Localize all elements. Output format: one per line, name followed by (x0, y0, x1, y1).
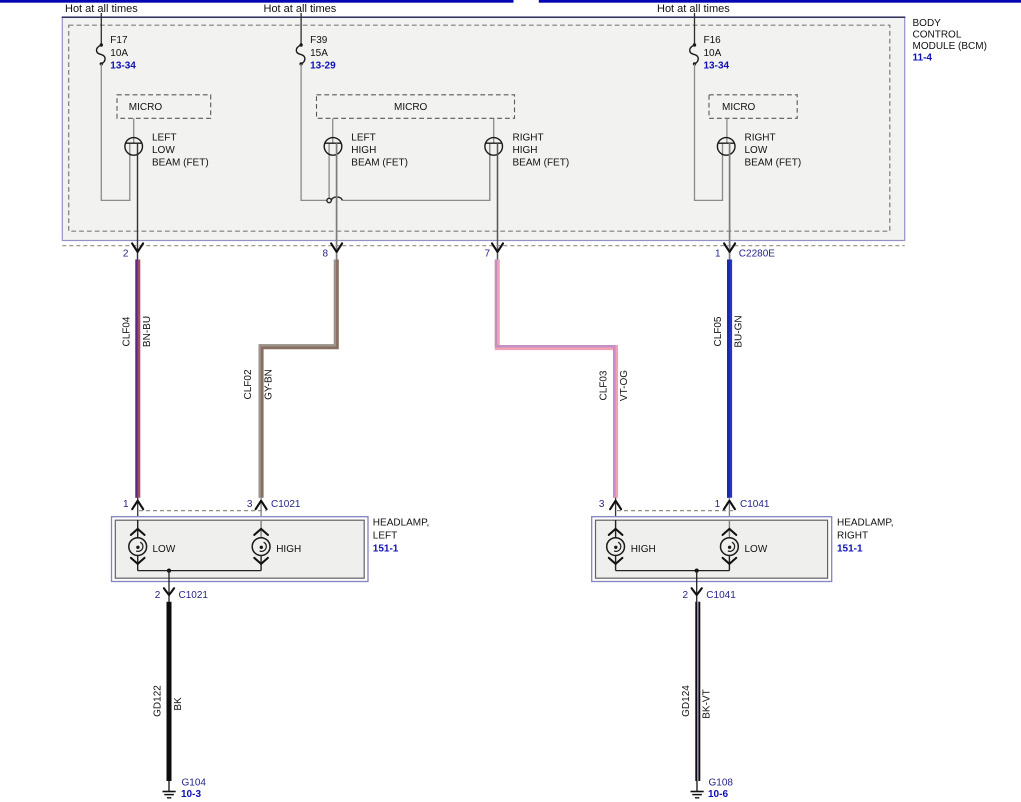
svg-text:2: 2 (155, 590, 161, 601)
wire CLF04 BN-BU (137, 260, 138, 498)
svg-text:MODULE (BCM): MODULE (BCM) (913, 41, 987, 52)
svg-text:C1041: C1041 (706, 590, 736, 601)
wire: drain of Q4 to pin 1 (729, 143, 731, 260)
fuse F39 (296, 43, 305, 65)
fuse F17 (97, 43, 106, 65)
wire: left headlamp common return (138, 570, 261, 572)
wire: gate of left low beam FET (133, 118, 135, 143)
svg-text:BK: BK (173, 697, 184, 711)
wire: F39 source bus (301, 64, 490, 201)
headlamp right labels (837, 517, 894, 554)
pin 3 arrow at right headlamp (599, 498, 621, 520)
pin 1 arrow at right headlamp with connector C1041 label (715, 498, 770, 520)
junction: left headlamp return node (167, 569, 171, 573)
svg-text:151-1: 151-1 (373, 544, 399, 555)
wire CLF03 labels (598, 370, 630, 401)
BCM module box (62, 17, 906, 241)
svg-text:HIGH: HIGH (351, 145, 376, 156)
FET Q4 labels (745, 133, 802, 169)
wire CLF05 BU-GN (728, 260, 729, 498)
connector C2280E dashed line (62, 245, 904, 247)
wire CLF04 labels (121, 316, 153, 347)
svg-text:GD124: GD124 (681, 685, 692, 717)
FET Q1 left low beam (125, 138, 143, 156)
ground G108 labels (708, 778, 733, 800)
svg-text:10-6: 10-6 (708, 789, 728, 800)
svg-text:MICRO: MICRO (394, 102, 428, 113)
MICRO box U1 (left) (117, 95, 211, 119)
ground G108 (691, 781, 704, 798)
BCM label text (913, 18, 987, 64)
svg-text:HEADLAMP,: HEADLAMP, (373, 517, 430, 528)
svg-text:LEFT: LEFT (351, 133, 375, 144)
svg-text:BEAM (FET): BEAM (FET) (351, 158, 408, 169)
headlamp left box (112, 517, 369, 582)
svg-text:BEAM (FET): BEAM (FET) (513, 158, 570, 169)
node: Hot at all times (right feed) (657, 3, 730, 15)
svg-text:HEADLAMP,: HEADLAMP, (837, 517, 894, 528)
bulb: right high beam (607, 520, 656, 571)
top header bar left segment (0, 0, 514, 3)
connector C1041 dashed line (617, 510, 734, 512)
connector C1021 dashed line (139, 510, 267, 512)
svg-text:CLF02: CLF02 (243, 369, 254, 399)
svg-text:MICRO: MICRO (722, 102, 756, 113)
bulb: left high beam (252, 520, 301, 571)
wire CLF05 labels (713, 315, 744, 347)
FET Q2 labels (351, 133, 408, 169)
wire: center feed from hot bus to fuse F39 (300, 13, 302, 45)
BCM inner dashed boundary (69, 25, 890, 231)
wire: F16 source run to right low beam FET (695, 64, 723, 201)
wire: right headlamp common return (616, 570, 730, 572)
FET Q4 right low beam (717, 138, 735, 156)
wire CLF02 labels (243, 369, 274, 400)
svg-text:3: 3 (599, 499, 605, 510)
wire: drain of Q3 to pin 7 (497, 143, 499, 260)
svg-text:151-1: 151-1 (837, 544, 863, 555)
wire: source leg of right high beam FET (489, 143, 491, 200)
svg-text:13-34: 13-34 (110, 61, 136, 72)
FET Q1 labels (152, 133, 209, 169)
svg-text:2: 2 (123, 248, 129, 259)
svg-text:HIGH: HIGH (513, 145, 538, 156)
svg-text:LOW: LOW (153, 544, 176, 555)
svg-text:F39: F39 (310, 35, 328, 46)
svg-text:G104: G104 (182, 778, 207, 789)
svg-text:RIGHT: RIGHT (837, 531, 868, 542)
headlamp right box (592, 517, 832, 582)
svg-text:3: 3 (247, 499, 253, 510)
svg-text:F17: F17 (110, 35, 128, 46)
svg-text:Hot at all times: Hot at all times (264, 3, 337, 15)
wire: drain of Q2 to pin 8 (336, 143, 338, 260)
svg-text:1: 1 (123, 499, 129, 510)
svg-text:C1041: C1041 (740, 499, 770, 510)
svg-text:RIGHT: RIGHT (513, 133, 544, 144)
svg-text:HIGH: HIGH (276, 544, 301, 555)
svg-text:BEAM (FET): BEAM (FET) (152, 158, 209, 169)
svg-text:G108: G108 (709, 778, 734, 789)
svg-text:LOW: LOW (745, 145, 768, 156)
wire: left headlamp to pin 2 (168, 571, 170, 602)
wire: gate of left high beam FET (332, 118, 334, 143)
pin 1 arrow at left headlamp (123, 498, 143, 520)
wire: source leg of left high beam FET (328, 143, 330, 198)
pin 2 arrow at BCM (123, 243, 143, 259)
top header bar right segment (539, 0, 1021, 3)
MICRO box U2 (center) (317, 95, 515, 119)
node: Hot at all times (center feed) (264, 3, 337, 15)
FET Q3 right high beam (485, 138, 503, 156)
wire: left feed from hot bus to fuse F17 (100, 13, 102, 45)
svg-text:10A: 10A (110, 48, 128, 59)
svg-text:CLF04: CLF04 (121, 316, 132, 346)
FET Q3 labels (513, 133, 570, 169)
svg-text:LEFT: LEFT (152, 133, 176, 144)
wire: gate of right high beam FET (493, 118, 495, 143)
svg-text:7: 7 (484, 248, 490, 259)
MICRO box U3 (right) (709, 95, 797, 119)
wire CLF02 GY-BN (260, 260, 337, 498)
wire GD124 BK-VT (695, 602, 700, 781)
svg-text:BK-VT: BK-VT (702, 689, 713, 718)
svg-text:1: 1 (715, 248, 721, 259)
svg-text:BODY: BODY (913, 18, 942, 29)
svg-text:CLF03: CLF03 (598, 370, 609, 400)
pin 1 arrow at BCM with connector C2280E label (715, 243, 775, 259)
svg-text:10-3: 10-3 (181, 789, 201, 800)
node: Hot at all times (left feed) (65, 3, 138, 15)
ground G104 (163, 781, 176, 798)
wire: right feed from hot bus to fuse F16 (694, 13, 696, 45)
svg-text:GD122: GD122 (153, 685, 164, 717)
svg-text:VT-OG: VT-OG (619, 370, 630, 401)
svg-text:CLF05: CLF05 (713, 316, 724, 346)
wire GD122 labels (153, 685, 185, 717)
svg-text:2: 2 (682, 590, 688, 601)
junction: right headlamp return node (695, 569, 699, 573)
bulb: left low beam (129, 520, 176, 571)
svg-text:10A: 10A (704, 48, 722, 59)
wire GD122 BK (167, 602, 172, 781)
svg-text:13-34: 13-34 (704, 61, 730, 72)
headlamp left labels (373, 517, 430, 554)
svg-text:Hot at all times: Hot at all times (657, 3, 730, 15)
svg-text:C2280E: C2280E (739, 248, 775, 259)
svg-text:F16: F16 (704, 35, 722, 46)
svg-text:CONTROL: CONTROL (913, 30, 962, 41)
svg-text:8: 8 (323, 248, 329, 259)
svg-text:BN-BU: BN-BU (142, 316, 153, 347)
fuse F39 value labels (310, 35, 336, 72)
svg-text:BEAM (FET): BEAM (FET) (745, 158, 802, 169)
pin 8 arrow at BCM (323, 243, 343, 259)
pin 2 arrow below left headlamp with connector C1021 label (155, 588, 209, 601)
fuse F16 (690, 43, 699, 65)
svg-text:BU-GN: BU-GN (733, 315, 744, 347)
ground G104 labels (181, 778, 206, 800)
svg-text:LOW: LOW (745, 544, 768, 555)
wire GD124 labels (681, 685, 713, 719)
pin 3 arrow at left headlamp with connector C1021 label (247, 498, 301, 520)
svg-text:11-4: 11-4 (913, 53, 933, 64)
svg-text:HIGH: HIGH (631, 544, 656, 555)
svg-text:C1021: C1021 (179, 590, 209, 601)
svg-text:LOW: LOW (152, 145, 175, 156)
svg-text:GY-BN: GY-BN (264, 369, 275, 400)
svg-text:LEFT: LEFT (373, 531, 397, 542)
wire: drain of Q1 to pin 2 (137, 143, 139, 260)
wire: gate of right low beam FET (726, 118, 728, 143)
svg-text:1: 1 (715, 499, 721, 510)
svg-text:15A: 15A (310, 48, 328, 59)
junction: splice on F39 bus (327, 198, 331, 202)
wire: bus hump over Q2 drain (332, 197, 343, 201)
fuse F16 value labels (704, 35, 730, 72)
svg-text:MICRO: MICRO (129, 102, 163, 113)
pin 7 arrow at BCM (484, 243, 503, 259)
pin 2 arrow below right headlamp with connector C1041 label (682, 588, 736, 601)
svg-text:C1021: C1021 (271, 499, 301, 510)
FET Q2 left high beam (324, 138, 342, 156)
bulb: right low beam (721, 520, 768, 571)
wire CLF03 VT-OG (496, 260, 616, 498)
svg-text:13-29: 13-29 (310, 61, 336, 72)
svg-text:RIGHT: RIGHT (745, 133, 776, 144)
wire: F17 source run to left low beam FET (101, 64, 130, 201)
wire: right headlamp to pin 2 (696, 571, 698, 602)
fuse F17 value labels (110, 35, 136, 72)
